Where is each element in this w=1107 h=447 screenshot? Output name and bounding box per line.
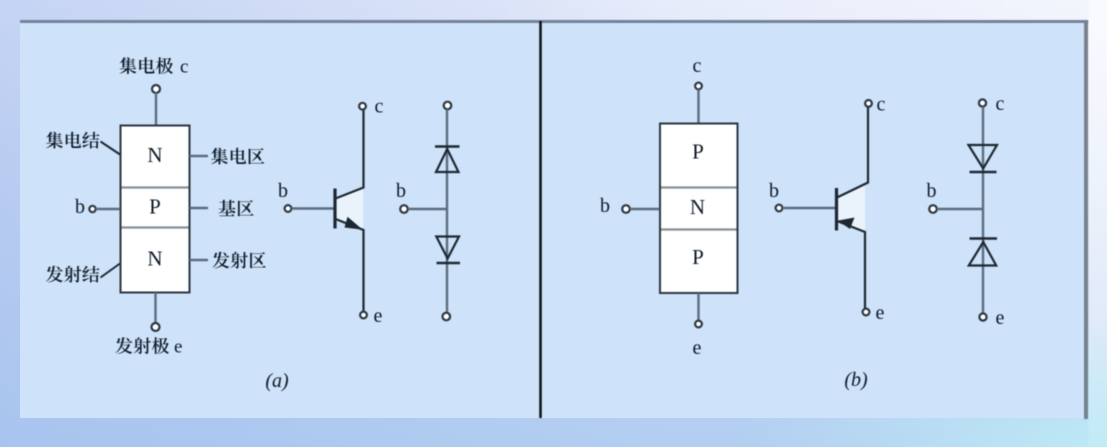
wire stub to 集电区 xyxy=(190,155,209,157)
terminal b of PNP structure xyxy=(622,205,630,213)
wire vertical of diode pair b xyxy=(982,107,984,314)
svg-text:b: b xyxy=(600,195,610,217)
leader line to emitter junction xyxy=(101,264,121,278)
svg-text:c: c xyxy=(375,96,384,118)
wire base lead PNP structure xyxy=(630,208,660,211)
diode D4 triangle xyxy=(969,242,996,266)
region label P top xyxy=(692,140,704,164)
svg-text:(b): (b) xyxy=(844,369,868,391)
svg-text:e: e xyxy=(374,305,383,327)
label e of PNP symbol xyxy=(876,302,885,324)
emitter segment PNP with arrow xyxy=(837,218,865,309)
wire base lead of structure xyxy=(96,208,120,210)
diode D3 triangle xyxy=(969,145,998,169)
junction line P-N of PNP box xyxy=(661,186,737,188)
region label P bottom xyxy=(692,245,704,269)
svg-text:P: P xyxy=(692,140,704,164)
region label N middle xyxy=(690,195,705,219)
svg-text:b: b xyxy=(396,180,406,202)
svg-text:e: e xyxy=(996,307,1005,329)
terminal top of diode pair a xyxy=(444,102,452,110)
caption (a) xyxy=(265,370,289,392)
region label N (emitter region) xyxy=(147,247,162,271)
svg-text:b: b xyxy=(927,180,937,202)
svg-text:N: N xyxy=(147,247,162,271)
svg-text:N: N xyxy=(147,143,162,167)
region label P (base region) xyxy=(149,195,161,219)
terminal c of PNP structure xyxy=(695,83,702,90)
diode D2 cathode bar xyxy=(437,262,461,264)
svg-text:c: c xyxy=(996,93,1005,115)
diode D1 cathode bar xyxy=(435,145,460,147)
terminal c of NPN symbol xyxy=(359,103,366,110)
panel divider line xyxy=(539,21,542,418)
terminal bottom of diode pair a xyxy=(443,313,451,321)
highlight inside NPN symbol xyxy=(336,188,363,229)
wire base lead diode pair b xyxy=(937,208,982,211)
NPN structure box outline xyxy=(121,126,190,293)
wire stub to 发射区 xyxy=(190,259,209,261)
terminal bottom of diode pair b xyxy=(979,313,986,320)
label e of NPN symbol xyxy=(374,305,383,327)
terminal e of PNP symbol xyxy=(863,309,870,316)
svg-text:N: N xyxy=(690,195,705,219)
terminal b of structure xyxy=(89,206,95,212)
terminal b of NPN symbol xyxy=(285,205,292,212)
label 集电极 c (collector electrode) xyxy=(120,57,189,78)
wire base lead NPN symbol xyxy=(292,207,334,210)
caption (b) xyxy=(844,369,868,391)
PNP structure box outline xyxy=(660,124,738,294)
terminal b of diode pair b xyxy=(929,205,937,213)
label 发射区 (emitter region) xyxy=(213,252,266,269)
terminal c of PNP symbol xyxy=(865,100,872,107)
svg-text:b: b xyxy=(278,180,288,202)
label e of PNP structure xyxy=(693,337,702,359)
label b of diode pair b xyxy=(927,180,937,202)
junction line N-P of PNP box xyxy=(661,228,737,230)
svg-text:e: e xyxy=(876,302,885,324)
highlight inside PNP symbol xyxy=(838,183,865,231)
terminal e of structure xyxy=(152,323,160,331)
label 发射结 (emitter junction) xyxy=(46,266,100,283)
svg-text:e: e xyxy=(693,337,702,359)
svg-text:(a): (a) xyxy=(265,370,289,392)
label e of diode pair b xyxy=(996,307,1005,329)
label b of NPN symbol xyxy=(278,180,288,202)
region label N (collector region) xyxy=(147,143,162,167)
svg-text:b: b xyxy=(75,196,85,218)
svg-text:e: e xyxy=(174,337,182,358)
svg-text:c: c xyxy=(877,94,886,116)
svg-text:c: c xyxy=(693,55,702,77)
label 集电结 (collector junction) xyxy=(46,132,99,149)
terminal c of NPN structure xyxy=(152,85,160,93)
diode D1 triangle xyxy=(436,149,459,172)
wire stub to 基区 xyxy=(190,207,209,209)
wire base lead PNP symbol xyxy=(783,207,836,210)
diode D2 triangle xyxy=(436,237,459,259)
label b of PNP symbol xyxy=(769,180,779,202)
terminal b of PNP symbol xyxy=(776,205,783,212)
svg-text:P: P xyxy=(692,245,704,269)
terminal b of diode pair a xyxy=(400,205,408,213)
wire emitter lead of structure xyxy=(154,293,156,324)
diode D4 cathode bar xyxy=(970,237,998,239)
wire vertical of diode pair a xyxy=(446,109,448,312)
emitter segment NPN with arrow xyxy=(336,217,364,312)
label b of PNP structure xyxy=(600,195,610,217)
collector segment NPN xyxy=(336,110,364,199)
junction line P-N (emitter junction) xyxy=(122,226,189,228)
label c of PNP structure xyxy=(693,55,702,77)
label c of NPN symbol xyxy=(375,96,384,118)
leader line to collector junction xyxy=(101,142,121,155)
wire collector lead of NPN structure xyxy=(155,93,157,126)
label c of PNP symbol xyxy=(877,94,886,116)
wire emitter lead PNP structure xyxy=(697,293,699,320)
label 基区 (base region) xyxy=(219,200,254,217)
label b of structure xyxy=(75,196,85,218)
label 集电区 (collector region) xyxy=(211,148,264,165)
terminal top of diode pair b xyxy=(979,99,986,106)
base bar of PNP symbol xyxy=(835,188,838,231)
wire collector lead PNP structure xyxy=(697,89,699,123)
collector segment PNP xyxy=(837,107,868,198)
wire base lead diode pair a xyxy=(408,208,446,211)
label 发射极 e (emitter electrode) xyxy=(116,337,183,358)
diode D3 cathode bar xyxy=(970,171,997,173)
svg-text:P: P xyxy=(149,195,161,219)
label b of diode pair a xyxy=(396,180,406,202)
label c of diode pair b xyxy=(996,93,1005,115)
base bar of NPN symbol xyxy=(333,189,336,229)
terminal e of NPN symbol xyxy=(360,312,367,319)
svg-text:c: c xyxy=(180,57,188,78)
junction line N-P (collector junction) xyxy=(122,186,189,188)
terminal e of PNP structure xyxy=(695,321,702,328)
svg-text:b: b xyxy=(769,180,779,202)
